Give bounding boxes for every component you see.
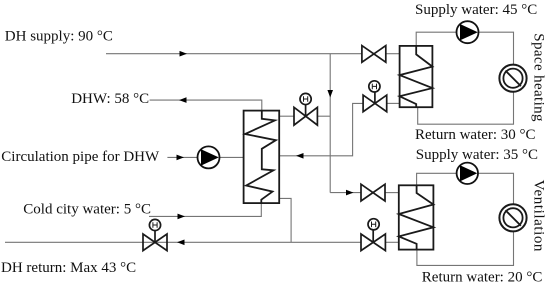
svg-text:DH supply: 90 °C: DH supply: 90 °C xyxy=(5,28,113,44)
svg-text:Supply water: 45 °C: Supply water: 45 °C xyxy=(415,2,537,18)
svg-text:DH return: Max 43 °C: DH return: Max 43 °C xyxy=(1,260,136,276)
svg-text:Supply water: 35 °C: Supply water: 35 °C xyxy=(416,147,538,163)
svg-text:Return water: 30 °C: Return water: 30 °C xyxy=(415,127,536,143)
svg-text:Space heating: Space heating xyxy=(531,33,547,122)
svg-text:Cold city water: 5 °C: Cold city water: 5 °C xyxy=(23,202,151,218)
svg-text:DHW: 58 °C: DHW: 58 °C xyxy=(71,91,149,107)
svg-text:Return water: 20 °C: Return water: 20 °C xyxy=(422,270,543,286)
svg-text:Circulation pipe for DHW: Circulation pipe for DHW xyxy=(1,149,160,165)
svg-text:Ventilation: Ventilation xyxy=(531,180,547,252)
